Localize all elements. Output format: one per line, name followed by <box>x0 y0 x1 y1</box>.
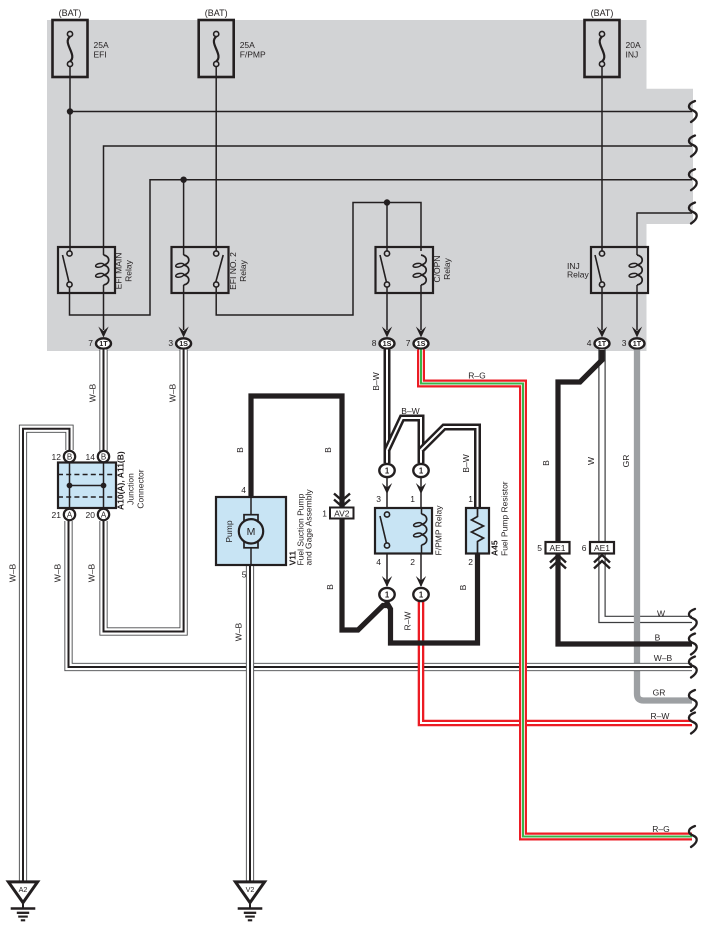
svg-text:7: 7 <box>88 338 93 348</box>
wire C/OPN switch feed <box>386 203 388 252</box>
svg-text:Connector: Connector <box>136 469 146 508</box>
wire W from pin 4 1T to AE1 and right edge <box>602 350 692 620</box>
svg-text:Pump: Pump <box>224 520 234 542</box>
node battery feed junction <box>67 108 73 114</box>
label EFI NO.2 Relay <box>228 252 248 290</box>
svg-text:1T: 1T <box>99 339 108 348</box>
wire B fuel pump feed <box>251 396 342 508</box>
label B-W at relay pin 1 branch <box>401 406 419 416</box>
svg-text:Relay: Relay <box>567 270 589 280</box>
wire bus line 1 to right edge <box>70 111 692 113</box>
relay EFI MAIN box <box>58 247 115 293</box>
svg-text:B: B <box>323 447 333 453</box>
bubble 1 at F/PMP relay pin 2 <box>413 588 428 601</box>
svg-text:W–B: W–B <box>8 563 18 582</box>
connector AE1 pin 5 chevrons <box>550 555 566 569</box>
svg-text:AE1: AE1 <box>549 543 565 553</box>
svg-text:5: 5 <box>242 570 247 580</box>
wire W-B from pin 3 1S to junction 20 <box>104 350 184 632</box>
junction connector internal wires <box>67 463 107 508</box>
svg-text:AV2: AV2 <box>334 508 350 518</box>
svg-text:and Gage Assembly: and Gage Assembly <box>304 489 314 566</box>
svg-text:B–W: B–W <box>461 454 471 472</box>
label F/PMP Relay <box>434 505 444 556</box>
resistor element <box>472 508 484 554</box>
junction connector A10/A11 box <box>58 463 116 509</box>
label C/OPN Relay <box>432 256 452 283</box>
label W-B at pump ground wire <box>234 622 244 641</box>
wire B-W branch to fuel pump resistor pin 1 <box>421 427 478 509</box>
svg-text:20A: 20A <box>626 40 641 50</box>
relay C/OPN coil <box>413 255 427 285</box>
svg-text:INJ: INJ <box>626 50 639 60</box>
label GR at pin 3 1T wire <box>621 455 631 468</box>
pin 3b 1T <box>622 338 645 349</box>
svg-text:B: B <box>458 584 468 590</box>
svg-text:F/PMP: F/PMP <box>240 50 266 60</box>
svg-text:1: 1 <box>322 508 327 518</box>
svg-text:4: 4 <box>241 485 246 495</box>
connector AE1 pin 6 chevrons <box>594 555 610 569</box>
relay INJ coil <box>629 255 643 285</box>
svg-text:1S: 1S <box>383 339 392 348</box>
label W at AE1 pin 6 wire <box>586 457 596 465</box>
pin 7b 1S arrow <box>416 327 426 338</box>
svg-text:B: B <box>325 584 335 590</box>
bubble 1 at F/PMP relay pin 4 <box>379 588 394 601</box>
svg-text:EFI NO. 2: EFI NO. 2 <box>228 252 238 290</box>
svg-text:F/PMP Relay: F/PMP Relay <box>434 505 444 556</box>
wire bus line 4 to INJ relay coil <box>637 213 692 255</box>
svg-text:B: B <box>655 633 661 643</box>
pump V11 box <box>216 497 286 565</box>
continuation mark wire B <box>689 634 697 655</box>
svg-text:W–B: W–B <box>87 563 97 582</box>
pin 8 1S arrow <box>382 327 392 338</box>
junction connector dashed rows <box>58 475 116 498</box>
label W-B at A2 wire <box>8 563 18 582</box>
pin 3b 1T arrow <box>632 327 642 338</box>
relay F/PMP coil <box>413 508 427 554</box>
wire B from F/PMP relay pin 4 to resistor pin 2 <box>387 554 478 644</box>
wire B from AV2 to F/PMP relay pin 4 <box>342 518 387 630</box>
svg-text:1S: 1S <box>417 339 426 348</box>
relay C/OPN box <box>376 247 434 293</box>
relay EFI MAIN coil <box>95 255 109 285</box>
wire B-W from pin 8 1S to F/PMP relay pin 3 <box>384 350 391 464</box>
relay EFI NO.2 coil <box>175 255 189 285</box>
label R-W at relay pin 2 wire <box>403 612 413 631</box>
continuation mark bus line 1 <box>689 101 697 122</box>
svg-text:A: A <box>67 511 73 520</box>
label B at AE1 pin 5 wire <box>541 460 551 466</box>
continuation mark bus line 2 <box>689 136 697 157</box>
svg-text:(BAT): (BAT) <box>205 8 228 18</box>
svg-text:R–G: R–G <box>652 824 669 834</box>
svg-text:W: W <box>586 457 596 465</box>
wire W-B from pin 7 1T to junction 14 <box>99 350 107 452</box>
label W-B at junction 20 wire <box>87 563 97 582</box>
label Pump <box>224 520 234 542</box>
wire EFI MAIN switch out to bus line 3 <box>70 180 693 315</box>
continuation mark wire R-W <box>689 713 697 734</box>
pin 4 1T <box>587 338 610 349</box>
wire R-W from F/PMP relay pin 2 to right edge <box>421 602 692 724</box>
label A10(A) A11(B) Junction Connector <box>116 451 146 510</box>
svg-text:2: 2 <box>468 557 473 567</box>
wire EFI NO.2 switch out to C/OPN relay <box>216 203 421 316</box>
svg-text:GR: GR <box>621 455 631 468</box>
svg-text:V2: V2 <box>246 885 255 894</box>
wire EFI NO.2 coil feed <box>183 180 185 255</box>
pin 7 1T arrow <box>98 327 108 338</box>
wire fuse INJ to INJ relay switch <box>601 77 603 251</box>
resistor A45 box <box>466 508 489 554</box>
label B at right edge <box>655 633 661 643</box>
node C/OPN switch tap <box>384 199 390 205</box>
svg-text:1S: 1S <box>179 339 188 348</box>
resistor pin labels <box>468 494 473 567</box>
svg-text:4: 4 <box>376 557 381 567</box>
label B at pump feed wire <box>235 447 245 453</box>
svg-text:B–W: B–W <box>401 406 419 416</box>
bubble 1 at F/PMP relay pin 3 <box>379 464 394 477</box>
wire EFI MAIN coil to bus line 2 <box>104 146 693 255</box>
svg-text:Junction: Junction <box>126 473 136 505</box>
svg-text:4: 4 <box>587 338 592 348</box>
relay INJ box <box>591 247 648 293</box>
pin 8 1S <box>372 338 395 349</box>
svg-text:5: 5 <box>537 543 542 553</box>
svg-text:B: B <box>541 460 551 466</box>
svg-text:1: 1 <box>385 590 390 599</box>
bubble 1 at F/PMP relay pin 1 <box>413 464 428 477</box>
node EFI NO.2 coil tap <box>180 177 186 183</box>
continuation mark bus line 4 <box>689 203 697 224</box>
relay EFI NO.2 switch contact <box>214 251 224 287</box>
svg-text:12: 12 <box>52 452 62 462</box>
svg-text:1: 1 <box>419 590 424 599</box>
wire C/OPN switch to pin 8 1S <box>386 287 388 330</box>
svg-text:1: 1 <box>419 466 424 475</box>
svg-text:2: 2 <box>410 557 415 567</box>
F/PMP pin labels <box>376 494 415 567</box>
svg-text:EFI MAIN: EFI MAIN <box>114 253 124 290</box>
pin 4 1T arrow <box>597 327 607 338</box>
label R-W at right edge <box>651 711 670 721</box>
svg-text:Fuel Pump Resistor: Fuel Pump Resistor <box>500 481 510 556</box>
svg-text:Relay: Relay <box>238 259 248 281</box>
wire B from pin 4 1T to AE1 <box>558 350 602 542</box>
fuse 20A INJ <box>585 8 641 77</box>
svg-text:1: 1 <box>385 466 390 475</box>
ground V2 <box>235 882 264 920</box>
svg-text:25A: 25A <box>94 40 109 50</box>
svg-text:B–W: B–W <box>371 372 381 390</box>
label W-B at pin 3 1S wire <box>168 383 178 402</box>
relay C/OPN switch contact <box>380 251 390 287</box>
pin 7 1T <box>88 338 111 349</box>
F/PMP pin 4 lead <box>382 554 392 588</box>
svg-text:25A: 25A <box>240 40 255 50</box>
svg-text:W–B: W–B <box>168 383 178 402</box>
junction pin 20 A <box>86 509 110 520</box>
svg-text:21: 21 <box>52 510 62 520</box>
svg-text:AE1: AE1 <box>594 543 610 553</box>
F/PMP pin 2 lead <box>416 554 426 588</box>
svg-text:M: M <box>247 526 256 538</box>
svg-text:W–B: W–B <box>88 383 98 402</box>
svg-text:14: 14 <box>86 452 96 462</box>
junction pin 12 B <box>52 451 76 462</box>
wire W-B ground bus from junction 21 to right edge <box>69 521 693 667</box>
label B-W at resistor branch <box>461 454 471 472</box>
fuse 25A F/PMP <box>199 8 266 77</box>
svg-text:C/OPN: C/OPN <box>432 256 442 283</box>
pin 3 1S <box>168 338 191 349</box>
svg-text:6: 6 <box>582 543 587 553</box>
wire W-B from pump pin 5 to ground V2 <box>246 566 254 883</box>
svg-text:1: 1 <box>468 494 473 504</box>
wire EFI MAIN coil to pin 7 1T <box>103 285 105 330</box>
svg-text:R–W: R–W <box>403 612 413 631</box>
svg-text:A: A <box>101 511 107 520</box>
pump motor <box>239 497 263 565</box>
label INJ Relay <box>567 261 589 280</box>
connector AE1 pin 6 box <box>582 542 614 554</box>
pin 7b 1S <box>406 338 429 349</box>
wire B-W branch to F/PMP relay pin 1 <box>387 418 421 463</box>
svg-text:W–B: W–B <box>234 622 244 641</box>
svg-text:7: 7 <box>406 338 411 348</box>
svg-text:R–G: R–G <box>468 371 485 381</box>
wire R-G from pin 7 1S to right edge <box>421 350 692 837</box>
label R-G at top <box>468 371 485 381</box>
relay F/PMP switch contact <box>380 512 390 548</box>
svg-text:3: 3 <box>168 338 173 348</box>
svg-text:A10(A), A11(B): A10(A), A11(B) <box>116 451 126 510</box>
svg-text:B: B <box>101 453 106 462</box>
label W-B at right edge <box>654 653 673 663</box>
svg-text:8: 8 <box>372 338 377 348</box>
svg-text:GR: GR <box>653 688 666 698</box>
svg-text:Relay: Relay <box>442 257 452 279</box>
wire fuse EFI to EFI MAIN relay switch <box>69 77 71 251</box>
label W-B at junction 21 wire <box>53 563 63 582</box>
svg-text:1T: 1T <box>633 339 642 348</box>
svg-text:W: W <box>657 609 665 619</box>
connector AV2 chevrons <box>334 494 350 507</box>
connector AV2 box <box>322 508 353 519</box>
junction pin 14 B <box>86 451 110 462</box>
pin 3 1S arrow <box>178 327 188 338</box>
svg-text:3: 3 <box>376 494 381 504</box>
continuation mark wire W-B <box>689 657 697 678</box>
wire B from AE1 to right edge <box>558 554 692 645</box>
continuation mark wire R-G <box>689 826 697 847</box>
relay EFI MAIN switch contact <box>63 251 73 287</box>
svg-text:B: B <box>67 453 72 462</box>
wire INJ coil to pin 3 1T <box>636 285 638 330</box>
label R-G at right edge <box>652 824 669 834</box>
svg-text:W–B: W–B <box>654 653 673 663</box>
wire EFI NO.2 coil to pin 3 1S <box>183 285 185 330</box>
ground A2 <box>8 882 37 920</box>
label A45 Fuel Pump Resistor <box>490 481 510 556</box>
fuse 25A EFI <box>53 8 109 77</box>
pump pin labels <box>241 485 247 580</box>
svg-text:B: B <box>235 447 245 453</box>
relay F/PMP box <box>375 508 432 554</box>
label B at AV2 wire upper <box>323 447 333 453</box>
wire INJ switch to pin 4 1T <box>601 287 603 330</box>
wire C/OPN coil to pin 7 1S <box>420 285 422 330</box>
svg-text:A45: A45 <box>490 540 500 556</box>
gray harness background panel <box>47 20 693 351</box>
wire W-B from junction 12 to ground A2 <box>23 429 70 882</box>
continuation mark wire W <box>689 609 697 630</box>
wire GR from pin 3 1T to right edge <box>637 350 692 701</box>
label W at right edge <box>657 609 665 619</box>
svg-text:A2: A2 <box>19 885 28 894</box>
svg-text:3: 3 <box>622 338 627 348</box>
F/PMP pin 3 lead <box>382 478 392 508</box>
label V11 Fuel Suction Pump and Gage Assembly <box>288 489 314 566</box>
svg-text:R–W: R–W <box>651 711 670 721</box>
svg-text:W–B: W–B <box>53 563 63 582</box>
relay EFI NO.2 box <box>172 247 229 293</box>
label B at AV2 wire lower <box>325 584 335 590</box>
label GR at right edge <box>653 688 666 698</box>
label EFI MAIN Relay <box>114 253 134 290</box>
svg-text:EFI: EFI <box>94 50 107 60</box>
F/PMP pin 1 lead <box>416 478 426 508</box>
label B-W at pin 8 1S wire <box>371 372 381 390</box>
svg-text:(BAT): (BAT) <box>59 8 82 18</box>
label W-B at pin 7 1T wire <box>88 383 98 402</box>
svg-text:1T: 1T <box>598 339 607 348</box>
continuation mark bus line 3 <box>689 169 697 190</box>
junction pin 21 A <box>52 509 76 520</box>
svg-text:20: 20 <box>86 510 96 520</box>
label B at resistor out wire <box>458 584 468 590</box>
continuation mark wire GR <box>689 690 697 711</box>
svg-text:1: 1 <box>410 494 415 504</box>
wire fuse F/PMP to EFI NO.2 relay switch <box>215 77 217 251</box>
connector AE1 pin 5 box <box>537 542 569 554</box>
svg-text:Relay: Relay <box>124 259 134 281</box>
svg-text:(BAT): (BAT) <box>591 8 614 18</box>
relay INJ switch contact <box>595 251 605 287</box>
